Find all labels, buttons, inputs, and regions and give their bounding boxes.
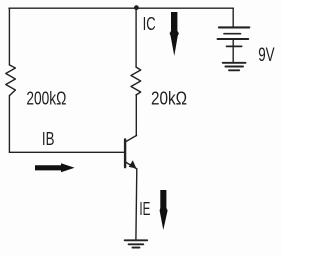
- current arrow IC: [170, 12, 179, 56]
- current arrow IE: [160, 190, 168, 230]
- wire emitter vertical: [135, 169, 138, 240]
- svg-text:IE: IE: [139, 199, 150, 219]
- wire right vertical upper: [135, 8, 137, 67]
- resistor R1 200k zigzag: [6, 65, 16, 96]
- svg-text:20kΩ: 20kΩ: [151, 89, 187, 109]
- wire battery vertical upper: [232, 8, 234, 26]
- wire collector vertical: [135, 95, 137, 136]
- svg-text:200kΩ: 200kΩ: [26, 89, 66, 109]
- transistor Q1 emitter diagonal: [126, 162, 137, 169]
- wire base horizontal: [9, 151, 123, 153]
- svg-text:IC: IC: [143, 14, 156, 34]
- svg-text:IB: IB: [42, 129, 55, 149]
- transistor Q1 emitter arrowhead: [129, 160, 137, 168]
- current arrow IB: [35, 163, 75, 172]
- resistor R2 20k zigzag: [131, 67, 141, 95]
- wire left vertical upper: [8, 8, 10, 65]
- node junction at top of 20k branch: [134, 5, 139, 10]
- ground symbol at emitter: [125, 240, 148, 247]
- wire top rail: [9, 7, 233, 9]
- wire left vertical lower: [8, 96, 10, 153]
- wire battery vertical lower: [232, 39, 234, 62]
- battery B1 plates: [218, 27, 250, 46]
- transistor Q1 base bar: [124, 139, 126, 167]
- ground symbol at battery: [223, 63, 246, 71]
- transistor Q1 collector diagonal: [126, 135, 137, 141]
- svg-text:9V: 9V: [258, 44, 274, 66]
